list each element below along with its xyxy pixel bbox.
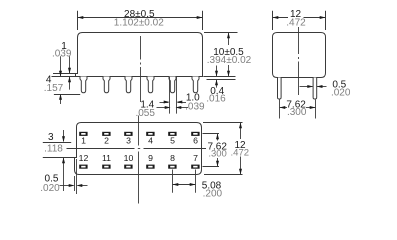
dim 0.4 down arrow [216, 66, 218, 77]
dim 12 right extension line [325, 11, 327, 30]
dim 1.4 right-pointing arrow [160, 102, 169, 104]
bottom view vertical centerline upper segment [138, 116, 140, 146]
dim 1.4 left-pointing arrow [178, 102, 187, 104]
side view relay body [76, 33, 203, 77]
dim 7.62 rows lower arrow [217, 158, 219, 166]
pad 11 [102, 165, 110, 169]
dim 0.5 left-pointing arrow [317, 86, 327, 88]
dim 1 down arrow [69, 56, 71, 73]
svg-text:.118: .118 [44, 144, 63, 155]
bottom view horizontal centerline right segment [144, 148, 207, 150]
dim 4 up arrow [60, 95, 62, 105]
dim 0.4 upper line (body bottom ext) [203, 76, 235, 78]
svg-text:4: 4 [148, 135, 153, 145]
svg-text:.394±0.02: .394±0.02 [207, 55, 252, 66]
dim 0.5 step left extension line [74, 176, 76, 191]
dim 12 bottom-view lower arrow [240, 157, 242, 175]
side view pin 6 [192, 77, 199, 93]
dim 7.62 left extension line [279, 100, 281, 119]
pad 3 [124, 132, 132, 136]
end view vertical centerline lower segment [298, 62, 300, 96]
dim 28 right extension line [202, 11, 204, 30]
svg-text:.016: .016 [206, 94, 226, 105]
pin 5 right width extension line [176, 77, 178, 114]
dim 10 top extension line [204, 32, 238, 34]
svg-text:.020: .020 [40, 183, 60, 194]
dim 12 line left segment [273, 17, 289, 19]
dim 4 down arrow [60, 56, 62, 76]
dim 7.62 rows upper arrow [217, 134, 219, 141]
svg-text:.472: .472 [286, 18, 306, 29]
side view pin 1 [80, 77, 87, 93]
svg-text:9: 9 [148, 153, 153, 163]
svg-text:10: 10 [124, 153, 134, 163]
dim 4 pin-tip extension line [54, 94, 80, 96]
dim 0.5 right-pointing arrow [300, 86, 313, 88]
svg-text:5: 5 [170, 135, 175, 145]
side view pin 3 [125, 77, 132, 93]
dim 12 bottom-view upper arrow [240, 123, 242, 139]
dim 5.08 left extension line [172, 170, 174, 193]
dim 3 upper extension line [43, 142, 71, 144]
side view pin 2 [103, 77, 110, 93]
dim 12 left extension line [272, 11, 274, 30]
dim 12 line right segment [304, 17, 326, 19]
dim 1 upper extension line (step top) [53, 73, 76, 75]
dim 1.0 left-pointing arrow [177, 107, 189, 109]
end view relay body [273, 33, 326, 78]
side view pin 5 [169, 77, 176, 93]
bottom view horizontal centerline left segment [67, 148, 135, 150]
pad 12 [79, 165, 87, 169]
dim 7.62 line left segment [280, 107, 288, 109]
end view centerline dot [298, 57, 300, 59]
dim 0.5 step right extension line [76, 159, 78, 194]
dim 0.4 up arrow [216, 80, 218, 88]
end view left pin [278, 78, 282, 100]
svg-text:.039: .039 [185, 101, 205, 112]
svg-text:1.102±0.02: 1.102±0.02 [114, 18, 164, 29]
dim 5.08 line [173, 184, 196, 186]
dim 7.62 line right segment [306, 107, 316, 109]
svg-text:.472: .472 [231, 148, 250, 159]
svg-text:6: 6 [193, 135, 198, 145]
svg-text:.300: .300 [287, 107, 307, 118]
dim 10 line upper part [228, 33, 230, 45]
dim 1 up arrow [69, 77, 71, 90]
pad 9 [146, 165, 154, 169]
svg-text:2: 2 [104, 135, 109, 145]
dim 1 lower extension line (body bottom) [52, 76, 76, 78]
dim 1.0 right-pointing arrow [157, 107, 170, 109]
dim 10 line lower part [228, 65, 230, 76]
side view centerline dot [140, 63, 142, 65]
dim 3 lower extension line [43, 157, 75, 159]
bottom view vertical centerline lower segment [138, 152, 140, 204]
dim 0.4 lower line [207, 79, 236, 81]
dim 12 bottom-view upper extension line [203, 122, 243, 124]
pad 4 [146, 132, 154, 136]
dim 28 left extension line [77, 11, 79, 30]
svg-text:.020: .020 [331, 87, 351, 98]
svg-text:8: 8 [170, 153, 175, 163]
side view vertical centerline upper segment [140, 36, 142, 60]
dim 7.62 right extension line [315, 100, 317, 119]
dim 12 bottom-view lower extension line [204, 174, 243, 176]
end view vertical centerline upper segment [298, 27, 300, 54]
svg-text:3: 3 [126, 135, 131, 145]
pad 6 [191, 132, 199, 136]
pad 1 [79, 132, 87, 136]
pin 5 left width extension line [169, 77, 171, 114]
dim 3 up arrow [63, 158, 65, 191]
svg-text:7: 7 [193, 153, 198, 163]
dim 3 down arrow [63, 130, 65, 142]
dim 0.5 step left-pointing arrow [78, 185, 88, 187]
svg-text:1: 1 [81, 135, 86, 145]
end view right pin [313, 78, 317, 100]
pad 8 [168, 165, 176, 169]
dim 0.5 step right-pointing arrow [60, 185, 74, 187]
svg-text:3: 3 [48, 132, 54, 143]
dim 7.62 rows upper extension line [203, 133, 220, 135]
bottom view center mark [138, 148, 140, 150]
svg-text:12: 12 [79, 153, 89, 163]
pad 2 [102, 132, 110, 136]
pad 7 [191, 165, 199, 169]
pad 5 [168, 132, 176, 136]
dim 28 dimension line [78, 17, 203, 19]
side view pin 4 [147, 77, 154, 93]
svg-text:.157: .157 [44, 83, 64, 94]
dim 7.62 rows lower extension line [203, 166, 220, 168]
dim 5.08 right extension line [195, 170, 197, 193]
svg-text:.039: .039 [52, 48, 72, 59]
svg-text:.300: .300 [208, 149, 227, 160]
bottom view relay body [75, 123, 202, 175]
svg-text:.200: .200 [203, 188, 223, 199]
pad 10 [124, 165, 132, 169]
side view vertical centerline lower segment [140, 67, 142, 102]
svg-text:11: 11 [102, 153, 111, 163]
